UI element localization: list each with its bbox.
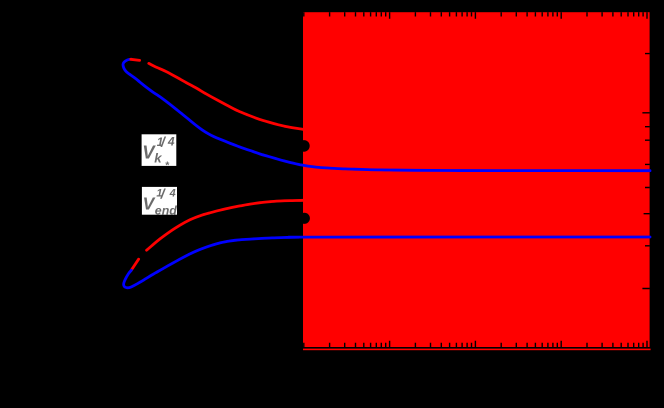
label box V_k* (142, 134, 177, 166)
svg-text:end: end (155, 203, 177, 217)
red boundary line below bottom frame (303, 349, 651, 351)
label text V_k*^1/4 (142, 134, 175, 172)
curve red V_k* (upper red curve) (149, 63, 303, 129)
curve blue V_end (lower blue curve) (124, 237, 650, 288)
marker dot lower (on region edge) (299, 213, 310, 224)
marker dot upper (on region edge) (298, 140, 310, 152)
x-axis log tick marks, bottom edge (304, 341, 647, 347)
x-axis log tick marks, top edge (304, 12, 647, 19)
curve red V_end dashed tip segment (131, 259, 139, 270)
svg-text:4: 4 (167, 135, 175, 149)
svg-text:V: V (143, 194, 156, 214)
svg-text:4: 4 (169, 188, 176, 200)
y-axis tick marks, right edge (642, 54, 649, 289)
label box V_end (142, 187, 177, 215)
curve blue V_k* (upper blue curve) (123, 59, 650, 171)
svg-text:k: k (154, 151, 162, 166)
excluded region (red fill) (303, 12, 650, 347)
curve red V_end (lower red curve) (147, 200, 304, 250)
curve red V_k* dashed tip segment (131, 59, 140, 60)
label text V_end^1/4 (143, 186, 178, 217)
